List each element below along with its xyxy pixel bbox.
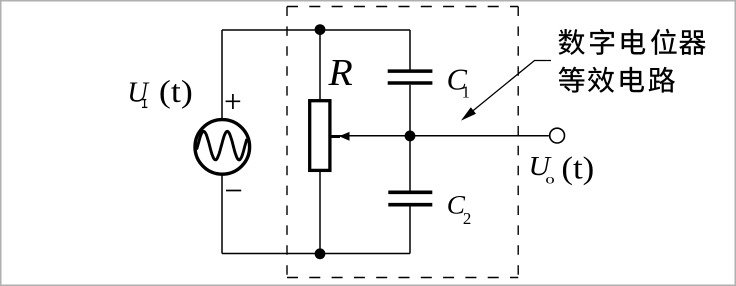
- wire wiper to output terminal: [332, 135, 549, 137]
- dashed boundary box: left edge: [286, 7, 288, 278]
- annotation leader line: [463, 61, 551, 119]
- svg-text:U: U: [127, 78, 150, 109]
- capacitor C1 bottom plate: [388, 81, 433, 85]
- svg-text:2: 2: [463, 209, 471, 228]
- wire source top lead: [221, 30, 223, 119]
- svg-text:o: o: [545, 171, 554, 187]
- hanzi 位 (annotation text): [651, 29, 677, 55]
- potentiometer wiper stub: [332, 135, 341, 138]
- capacitor C1 top plate: [388, 69, 433, 73]
- dashed boundary box: right edge: [517, 7, 519, 278]
- dashed boundary box: bottom edge: [287, 277, 518, 279]
- wire top rail: [222, 29, 410, 31]
- svg-text:(t): (t): [159, 75, 193, 110]
- wire capacitor branch middle C1 to C2: [409, 85, 411, 191]
- wire potentiometer bottom lead: [319, 171, 321, 254]
- hanzi 电 (annotation text): [621, 67, 645, 92]
- hanzi 等 (annotation text): [559, 67, 585, 93]
- hanzi 数 (annotation text): [559, 29, 585, 55]
- capacitor C2 bottom plate: [388, 203, 432, 207]
- wire source bottom lead: [221, 175, 223, 254]
- capacitor C2 top plate: [388, 191, 432, 195]
- hanzi 路 (annotation text): [649, 67, 675, 93]
- wire bottom rail: [222, 253, 410, 255]
- potentiometer R body: [310, 101, 330, 171]
- hanzi 效 (annotation text): [588, 67, 614, 93]
- annotation leader arrowhead: [461, 107, 476, 120]
- polarity minus sign: [226, 190, 241, 192]
- hanzi 字 (annotation text): [590, 29, 614, 55]
- svg-text:1: 1: [462, 83, 470, 102]
- node junction bottom rail / potentiometer: [315, 248, 326, 259]
- dashed boundary box: top edge: [287, 6, 518, 8]
- polarity plus sign: [226, 94, 241, 109]
- voltage source sine waveform: [197, 131, 247, 160]
- wire potentiometer top lead: [319, 30, 321, 100]
- output terminal open circle: [550, 128, 565, 143]
- wire capacitor branch upper lead to C1: [409, 30, 411, 70]
- voltage source U1 circle: [195, 120, 250, 175]
- node junction wiper / capacitor branch: [405, 131, 416, 142]
- svg-text:(t): (t): [561, 151, 594, 186]
- potentiometer wiper arrowhead: [339, 132, 350, 141]
- hanzi 器 (annotation text): [679, 30, 706, 55]
- hanzi 电 (annotation text): [622, 29, 646, 54]
- node junction top rail / potentiometer: [315, 24, 326, 35]
- label U1(t): subscript I drawn as serif strokes: [142, 100, 147, 108]
- wire capacitor branch lower C2 to bottom rail: [409, 207, 411, 254]
- svg-text:R: R: [327, 52, 353, 94]
